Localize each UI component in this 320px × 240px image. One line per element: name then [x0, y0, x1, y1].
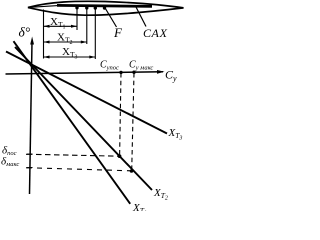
dimension line X_T1: [44, 25, 78, 28]
focus point F dot: [103, 6, 106, 9]
dashed horizontal delta pos: [27, 154, 120, 156]
delta axis (vertical): [30, 42, 33, 194]
leader line to F: [105, 8, 117, 28]
extension line x_T2: [86, 7, 88, 44]
tick delta max: [26, 167, 33, 169]
svg-text:F: F: [113, 25, 123, 40]
line X_T2: [15, 47, 152, 190]
dashed vertical from Cy pos: [120, 73, 121, 156]
point on X_T2 at Cy pos: [118, 154, 122, 158]
Cy axis (horizontal): [6, 72, 164, 74]
line X_T3: [6, 52, 167, 134]
extension line x_T1: [76, 7, 78, 30]
dashed vertical from Cy max: [132, 73, 134, 171]
CG dot X_T1: [75, 6, 78, 9]
dimension line X_T3: [44, 56, 96, 59]
chord line (thin, from leading edge): [28, 6, 58, 8]
CG dot X_T3: [94, 6, 97, 9]
leader line to CAX: [136, 7, 146, 27]
CG dot X_T2: [85, 6, 88, 9]
point on X_T2 at Cy max: [130, 169, 134, 173]
dimension line X_T2: [44, 41, 87, 44]
airfoil profile: [28, 1, 184, 15]
svg-text:САХ: САХ: [143, 26, 168, 40]
svg-text:δ°: δ°: [19, 25, 31, 40]
CAX thick chord bar: [57, 5, 152, 6]
dot on axis at Cy max: [132, 71, 135, 74]
extension line left (chord origin): [43, 10, 45, 59]
tick delta pos: [26, 153, 33, 155]
extension line x_T3: [94, 7, 96, 59]
dot on axis at Cy pos: [119, 71, 122, 74]
dashed horizontal delta max: [27, 168, 132, 171]
line X_T1: [14, 41, 131, 204]
